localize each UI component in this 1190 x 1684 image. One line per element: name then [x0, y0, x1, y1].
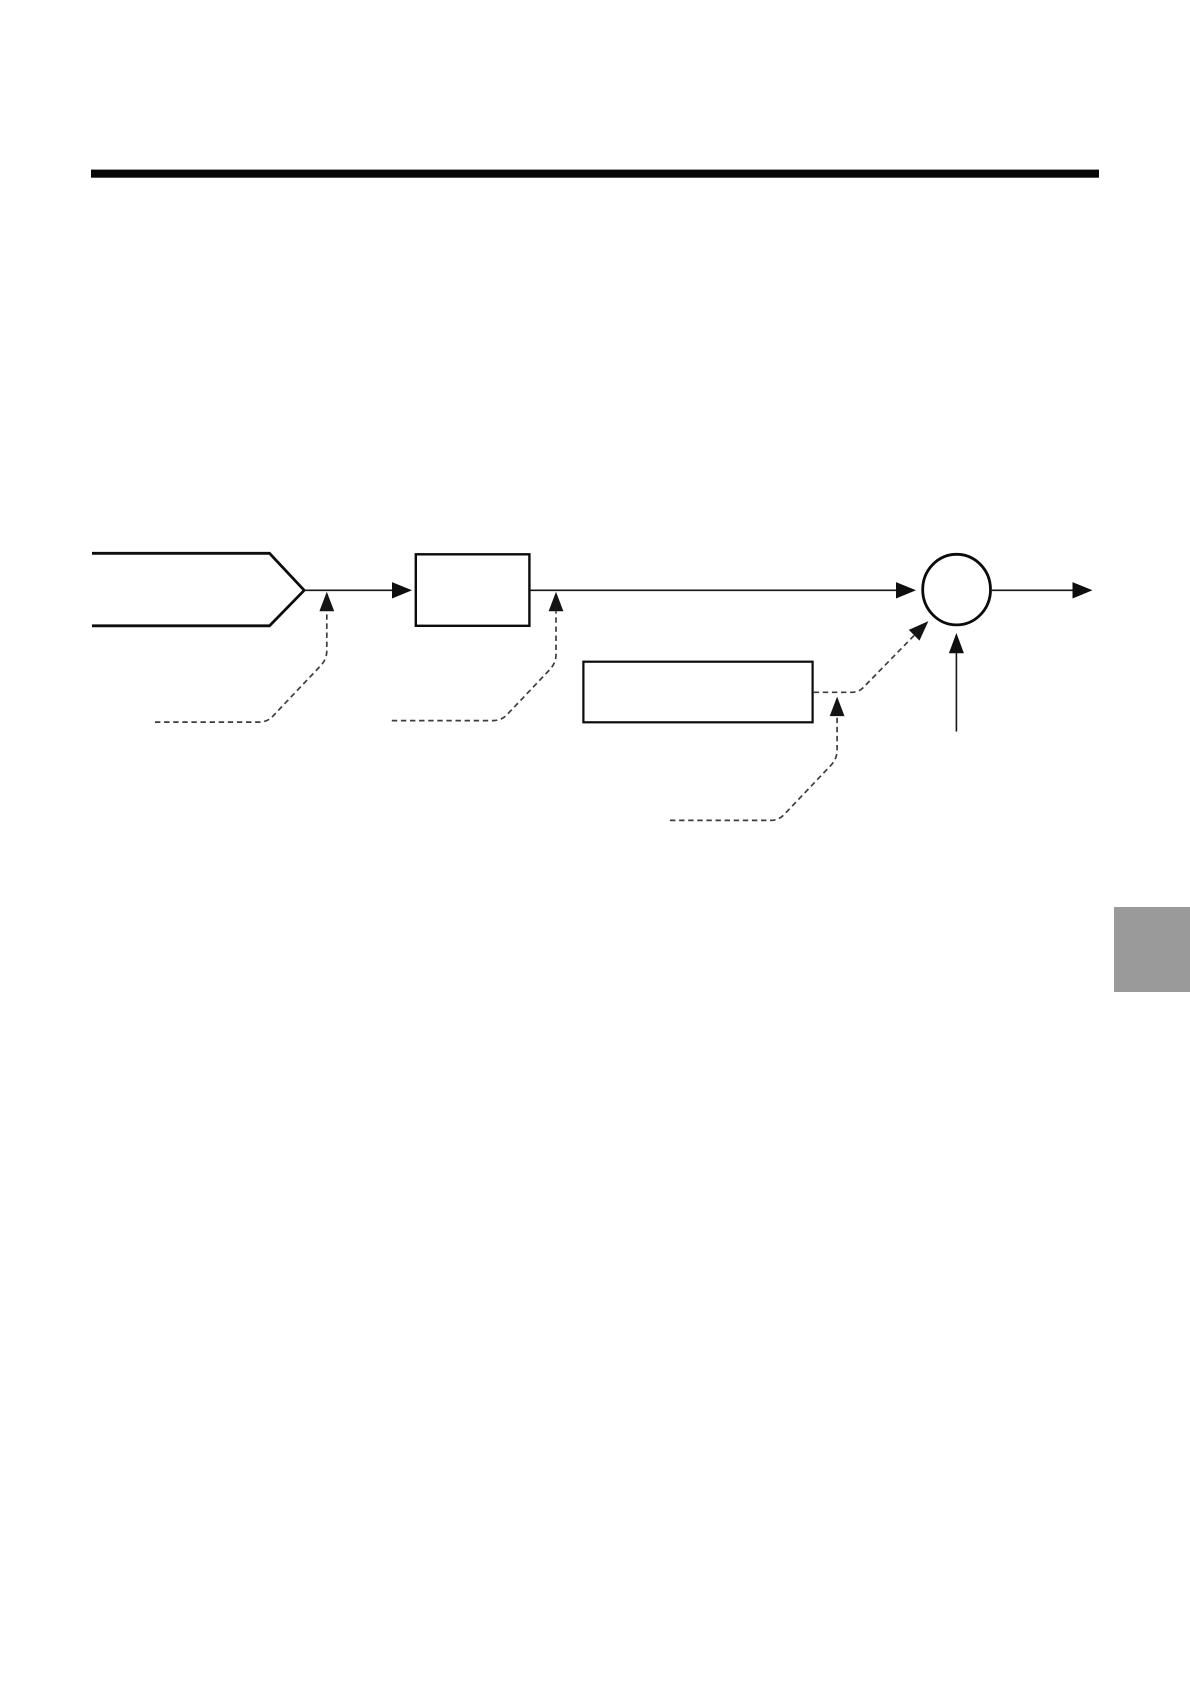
dashed callout path 1	[155, 612, 327, 723]
header rule	[91, 170, 1099, 178]
output wire from summing circle	[992, 589, 1074, 591]
arrowhead up toward summing circle	[949, 633, 964, 653]
output arrowhead	[1073, 582, 1093, 598]
arrowhead into summing circle	[896, 582, 916, 598]
arrowhead (callout 1)	[319, 592, 334, 612]
block 1	[416, 554, 530, 626]
dashed connector block 2 to summing circle	[814, 634, 916, 693]
wire block 1 to summing circle	[531, 589, 898, 591]
block 2	[583, 662, 812, 723]
input pennant shape (open arrow from left margin)	[92, 553, 304, 626]
summing circle	[923, 554, 991, 625]
arrowhead into block 1	[392, 582, 412, 598]
arrowhead (callout 2)	[549, 592, 564, 612]
dashed callout path 3	[670, 716, 837, 820]
arrowhead (dashed connector into circle)	[909, 621, 929, 641]
vertical wire below summing circle	[955, 653, 957, 732]
wire pennant tip to block 1	[304, 589, 394, 591]
gray page tab	[1114, 907, 1190, 992]
dashed callout path 2	[392, 612, 556, 721]
arrowhead (callout 3)	[830, 697, 845, 717]
